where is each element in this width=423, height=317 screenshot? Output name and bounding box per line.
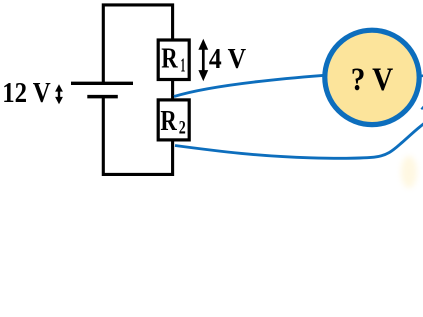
svg-text:1: 1 [181, 55, 186, 77]
resistor R2 box [158, 100, 189, 140]
battery B1 short plate (-) [87, 95, 118, 99]
blue wire from R2 bottom node toward right edge [175, 124, 423, 159]
voltmeter U1 circle [325, 30, 419, 124]
svg-text:2: 2 [179, 118, 186, 139]
svg-text:12 V: 12 V [2, 77, 51, 109]
wire: left lower segment + bottom of loop [103, 97, 172, 175]
svg-text:R: R [160, 106, 177, 137]
resistor R1 box [158, 40, 189, 80]
svg-text:R: R [161, 43, 178, 74]
wire: top + left upper segment of loop [103, 5, 172, 84]
battery voltage double arrow [55, 84, 63, 104]
blue wire from R1-R2 node to voltmeter left terminal [174, 75, 323, 96]
wire: between R1 and R2 [171, 80, 174, 99]
tiny cropped mark at right edge [421, 106, 423, 109]
svg-text:? V: ? V [351, 62, 394, 98]
voltmeter right stub wire [416, 75, 423, 78]
4 V double arrow across R1 [198, 39, 208, 81]
battery B1 long plate (+) [71, 82, 133, 85]
svg-text:4 V: 4 V [209, 43, 246, 75]
